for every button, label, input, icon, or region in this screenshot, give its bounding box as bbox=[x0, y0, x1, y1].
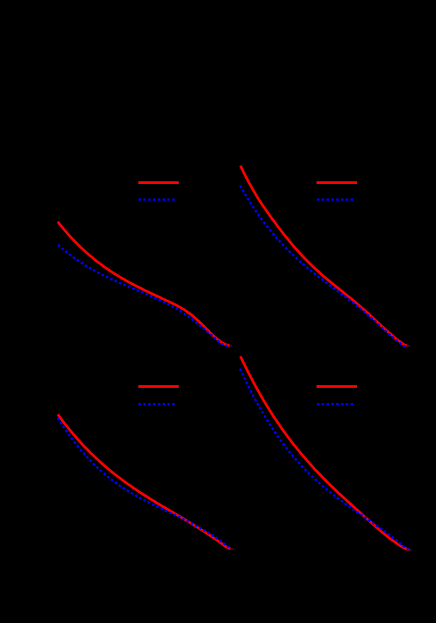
bottom-left curves: faint end tail bbox=[231, 548, 235, 551]
bottom-left plot: blue dotted curve bbox=[58, 418, 231, 549]
top-left curves: faint end tail bbox=[229, 344, 232, 347]
bottom-right plot: blue dotted curve bbox=[240, 369, 410, 550]
bottom-left legend: blue dashed sample line bbox=[139, 403, 178, 405]
top-right legend: blue dashed sample line bbox=[317, 198, 356, 200]
bottom-right plot: red solid curve bbox=[240, 356, 409, 549]
top-right curves: faint end tail bbox=[407, 344, 411, 347]
top-left legend: red solid sample line bbox=[138, 181, 179, 184]
top-left legend: blue dashed sample line bbox=[139, 198, 178, 200]
top-left plot: red solid curve bbox=[58, 222, 230, 346]
top-right plot: red solid curve bbox=[241, 166, 407, 346]
bottom-right curves: faint end tail bbox=[408, 548, 412, 551]
bottom-left plot: red solid curve bbox=[58, 415, 231, 549]
top-right legend: red solid sample line bbox=[317, 181, 358, 184]
bottom-right legend: blue dashed sample line bbox=[317, 403, 356, 405]
bottom-right legend: red solid sample line bbox=[317, 385, 358, 388]
top-left plot: blue dotted curve bbox=[58, 245, 228, 346]
top-right plot: blue dotted curve bbox=[240, 186, 407, 347]
bottom-left legend: red solid sample line bbox=[138, 385, 179, 388]
